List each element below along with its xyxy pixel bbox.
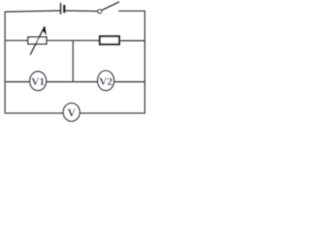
wire row2 right [120, 40, 145, 42]
battery B1 [61, 3, 65, 15]
voltmeter V [63, 103, 79, 121]
resistor R2 [100, 36, 119, 44]
voltmeter V1 [30, 72, 46, 91]
wire top-left horizontal [5, 11, 60, 12]
switch S1 [98, 2, 120, 14]
wire row2 middle [47, 40, 100, 42]
wire bottom left [5, 112, 64, 114]
svg-text:V2: V2 [99, 76, 113, 88]
wire row3 left [5, 81, 30, 83]
wire switch to top-right corner [119, 10, 145, 12]
wire middle vertical [72, 41, 74, 82]
svg-text:V: V [67, 107, 76, 119]
wire bottom right [79, 112, 145, 114]
wire left vertical [4, 11, 6, 113]
wire row3 right [114, 81, 145, 83]
svg-text:V1: V1 [31, 76, 44, 88]
wire battery to switch [65, 10, 98, 13]
wire right vertical [144, 10, 146, 113]
rheostat R1 (box with arrow) [28, 26, 47, 55]
wire row2 left [5, 40, 28, 42]
wire row3 V1 to V2 [46, 81, 98, 83]
voltmeter V2 [98, 71, 114, 91]
